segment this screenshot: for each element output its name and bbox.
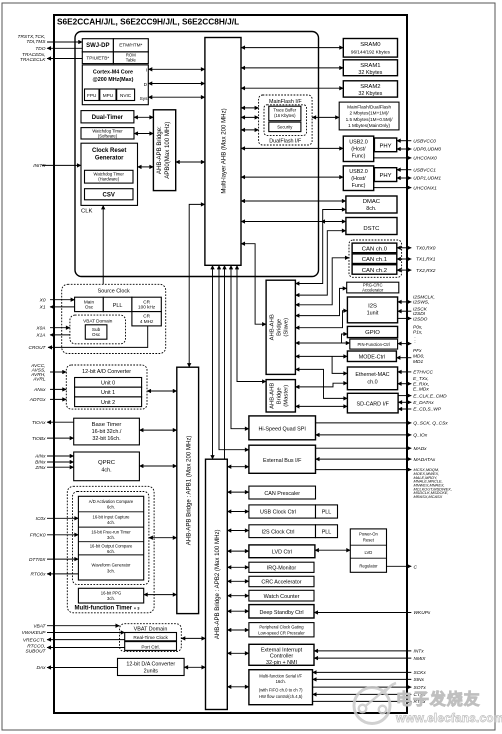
block SD-CARD I/F (347, 393, 398, 413)
block SRAM1 (343, 60, 397, 76)
svg-text:12-bit D/A Converter: 12-bit D/A Converter (126, 662, 175, 668)
wire VWAKEUP into Real-Time Clock (47, 632, 125, 634)
svg-text:Sub: Sub (92, 327, 101, 332)
svg-text:Real-Time Clock: Real-Time Clock (133, 635, 168, 640)
svg-text:FRCK0: FRCK0 (30, 533, 46, 539)
svg-text:Osc: Osc (92, 332, 101, 337)
wire AHB to MainFlash I/F b (241, 116, 259, 118)
svg-text:CRC Accelerator: CRC Accelerator (261, 580, 301, 586)
svg-text:Multi-function Timer × 3: Multi-function Timer × 3 (75, 606, 141, 612)
svg-text:I2SMCLK,: I2SMCLK, (413, 294, 435, 300)
wire APB2 to Watch Counter (227, 595, 249, 597)
wire AHB to SRAM1 (241, 67, 343, 69)
svg-text:电子发烧友: 电子发烧友 (396, 690, 481, 709)
wire CROUT out of CR 4MHz (48, 326, 148, 348)
block CRC Accelerator (249, 576, 314, 586)
svg-text:ETHVCC: ETHVCC (413, 370, 433, 376)
svg-text:RTO0x: RTO0x (30, 572, 46, 578)
svg-text:SCKx: SCKx (414, 670, 427, 676)
svg-text:FPU: FPU (87, 93, 97, 98)
wire APB2 to External Bus I/F (227, 466, 249, 468)
wire AHB to MainFlash I/F c (241, 129, 259, 131)
CPU subsystem group box (75, 32, 319, 277)
svg-text:CAN ch.2: CAN ch.2 (362, 268, 387, 274)
wire Q_IOx (316, 434, 412, 436)
wire AHB to DMAC (241, 200, 346, 202)
wire Q_SCK,Q_CSx (316, 422, 412, 424)
wire Sys-bus core to AHB (148, 96, 205, 98)
bus Multi-layer AHB (205, 38, 241, 266)
svg-text:INITX: INITX (33, 163, 46, 169)
svg-text:Func): Func) (352, 183, 366, 189)
svg-text:Watch Counter: Watch Counter (264, 594, 300, 600)
svg-text:32-bit 16ch.: 32-bit 16ch. (92, 436, 120, 442)
wire APB2 to Multi-function Serial I/F (227, 686, 249, 688)
svg-text:TDO: TDO (35, 46, 45, 52)
svg-text:Clock Reset: Clock Reset (92, 148, 126, 154)
wire INITX into Clock Reset Generator (42, 164, 81, 166)
svg-text:E_RXx,: E_RXx, (413, 381, 429, 387)
svg-text:Osc: Osc (85, 305, 94, 310)
svg-text:IC0x: IC0x (36, 516, 46, 522)
block 16-bit Output Compare (78, 554, 143, 556)
wire X1 out of Main Osc (50, 306, 75, 308)
block Ethernet-MAC (347, 367, 397, 390)
svg-text:Multi-function Serial I/F: Multi-function Serial I/F (259, 673, 302, 678)
block QPRC (74, 452, 140, 481)
svg-text:MD1: MD1 (413, 359, 423, 365)
block PLL (103, 297, 132, 311)
block Watch Counter (249, 590, 314, 601)
svg-text:16-bit Output Compare: 16-bit Output Compare (90, 544, 133, 549)
svg-text:6ch.: 6ch. (107, 549, 115, 554)
block Multi-function Serial I/F (249, 670, 313, 705)
svg-text:2 Mbytes(1M+1M)/: 2 Mbytes(1M+1M)/ (349, 111, 389, 116)
wire E_CD,S_WP (398, 408, 411, 410)
wire APB2 to Deep Standby Ctrl (227, 610, 249, 612)
svg-text:PLL: PLL (113, 303, 123, 309)
svg-text:TRSTX,TCK,: TRSTX,TCK, (18, 34, 46, 40)
svg-text:1unit: 1unit (367, 311, 379, 317)
block A/D Activation Compare (78, 511, 143, 513)
block inner flash dotted (264, 105, 307, 136)
svg-text:SOTx: SOTx (414, 685, 427, 691)
block DSTC (346, 218, 397, 235)
svg-text:32-pin + NMI: 32-pin + NMI (266, 660, 297, 666)
wire AHB to SRAM0 (241, 47, 343, 49)
svg-text:USB Clock Ctrl: USB Clock Ctrl (260, 510, 296, 516)
wire RTSx (313, 700, 412, 702)
block I2S unit (347, 297, 397, 323)
svg-text:C: C (414, 564, 418, 570)
wire QPRC to APB1 (139, 465, 176, 467)
svg-text:VBAT Domain: VBAT Domain (134, 627, 168, 633)
block USB Clock Ctrl (249, 505, 316, 518)
bus AHB-APB Bridge APB2 (206, 459, 228, 709)
wire AHB to APB1 feed (189, 204, 205, 367)
svg-text:VBAT: VBAT (33, 623, 46, 629)
svg-text:AHB-APB Bridge:: AHB-APB Bridge: (156, 126, 163, 174)
block LVD Ctrl (249, 545, 315, 558)
bus AHB-AHB Bridge Master (266, 380, 295, 412)
svg-text:MADATAx: MADATAx (414, 457, 436, 463)
svg-text:GPIO: GPIO (365, 330, 380, 336)
svg-text:AHB-APB Bridge : APB2 (Max 100: AHB-APB Bridge : APB2 (Max 100 MHz) (214, 529, 221, 639)
svg-text:ETM/HTM*: ETM/HTM* (119, 43, 142, 48)
svg-text:Main: Main (84, 299, 95, 304)
svg-text:S6E2CCAH/J/L, S6E2CC9H/J/L, S6: S6E2CCAH/J/L, S6E2CC9H/J/L, S6E2CC8H/J/L (57, 17, 239, 27)
block PHY1 (374, 168, 396, 182)
wire APB2 to LVD Ctrl (227, 550, 249, 552)
wire MCSX block (316, 469, 412, 471)
wire PRG-CRC to Slave bridge (295, 288, 346, 315)
wire DAx out of DAC (47, 667, 118, 669)
wire AINx into QPRC (47, 455, 74, 457)
wire Ethernet pins (398, 383, 412, 385)
svg-text:TX1,RX1: TX1,RX1 (416, 257, 436, 263)
wire SD-CARD to Master bridge (295, 405, 347, 407)
svg-text:Accelerator: Accelerator (362, 287, 384, 292)
svg-text:16-bit PPG: 16-bit PPG (101, 590, 121, 595)
wire I2S clock/ws (398, 301, 412, 303)
svg-text:Ethernet-MAC: Ethernet-MAC (355, 372, 389, 378)
block MFT stack (78, 496, 143, 580)
svg-text:Low-speed CR Prescaler: Low-speed CR Prescaler (258, 630, 305, 635)
svg-text:E_DATAx: E_DATAx (413, 400, 434, 406)
block Clock Reset Generator (81, 143, 138, 205)
svg-text:X0: X0 (39, 297, 46, 303)
wire LVD Ctrl to Power-On Reset (315, 549, 350, 551)
wire WKUPx into Deep Standby (314, 612, 411, 614)
wire AHB to Hi-Speed Quad SPI bus (231, 265, 249, 428)
svg-text:Table: Table (126, 58, 137, 63)
wire I2SDI (398, 310, 412, 312)
svg-text:(Hardware): (Hardware) (98, 176, 120, 181)
svg-text:P0x,: P0x, (413, 325, 423, 331)
block SRAM0 (343, 39, 397, 58)
wire Slave bridge to PIN-Function-Ctrl (295, 342, 349, 344)
block IRQ-Monitor (249, 562, 314, 572)
wire RTO0x out of Waveform Generator (47, 573, 78, 575)
svg-text:100 kHz: 100 kHz (138, 305, 156, 310)
wire AHB to SRAM2 (241, 87, 343, 89)
block USB2.0 0 (343, 136, 373, 161)
block Dual-Timer (81, 111, 134, 123)
block CAN ch.0 (352, 243, 397, 253)
wire TIOBx into Base Timer (47, 437, 74, 439)
wire MD0,MD1 into MODE-Ctrl (396, 357, 411, 359)
wire Ethernet-MAC to Master bridge (295, 383, 347, 387)
wire AHB to USB1 (241, 176, 343, 178)
wire E_DATAx (398, 401, 411, 403)
wire IC0x into Input Capture (47, 517, 78, 519)
wire VBAT into VBAT Domain (47, 625, 120, 627)
svg-text:I2SDO: I2SDO (413, 316, 428, 322)
svg-text:NVIC: NVIC (120, 93, 132, 98)
wire TRSTX,TCK,TDI,TMS into SWJ-DP (47, 41, 82, 43)
svg-text:PIN-Function-Ctrl: PIN-Function-Ctrl (358, 342, 390, 347)
block Multi-function Timer inner group (73, 492, 149, 585)
svg-text:Unit 2: Unit 2 (101, 400, 115, 406)
wire FRCK0 into Free-run Timer (47, 534, 78, 536)
block GPIO (347, 326, 397, 337)
svg-text:PLL: PLL (322, 510, 332, 516)
svg-text:I2SDI: I2SDI (413, 311, 426, 317)
wire UHCONX0 (374, 157, 412, 159)
svg-text:1.5 Mbytes(1M+0.5M)/: 1.5 Mbytes(1M+0.5M)/ (346, 117, 394, 122)
wire Slave bridge to MODE-Ctrl (295, 355, 347, 357)
wire DSTC to Slave bridge (295, 231, 346, 295)
wire ZINx into QPRC (47, 466, 74, 468)
svg-text:CAN ch.0: CAN ch.0 (362, 246, 388, 252)
block SRAM2 (343, 81, 397, 97)
wire AHB bus stub (224, 265, 226, 459)
wire Base Timer to APB1 (139, 429, 176, 431)
wire SOTx (313, 686, 412, 688)
svg-text:Func): Func) (352, 154, 366, 160)
bus AHB-AHB Bridge Slave (266, 280, 295, 374)
block Multi-function Timer outer group (67, 486, 154, 613)
svg-text:PHY: PHY (379, 173, 391, 179)
svg-text:MODE-Ctrl: MODE-Ctrl (359, 355, 385, 361)
block External Interrupt Controller (249, 644, 314, 665)
svg-text:1 Mbytes(MainOnly): 1 Mbytes(MainOnly) (348, 123, 390, 128)
svg-text:Regulator: Regulator (359, 563, 378, 568)
wire RTCCO,SUBOUT out (47, 647, 125, 649)
svg-text:MRASX,MCASX: MRASX,MCASX (414, 494, 443, 499)
svg-text:SD-CARD I/F: SD-CARD I/F (357, 402, 390, 408)
wire INTx (314, 650, 411, 652)
main chip boundary box (54, 15, 407, 713)
block External Bus I/F (249, 445, 316, 473)
svg-text:Multi-layer AHB (Max 200 MHz): Multi-layer AHB (Max 200 MHz) (221, 108, 228, 193)
wire X0 into Main Osc (50, 299, 75, 301)
wire AHB to MainFlash I/F a (241, 107, 259, 109)
block 16-bit PPG (78, 588, 143, 603)
block ADC Unit 0 (75, 378, 142, 388)
svg-text:CAN ch.1: CAN ch.1 (362, 257, 387, 263)
svg-text:Dual-Timer: Dual-Timer (92, 115, 124, 121)
wire MainFlash I/F to Flash memory (312, 116, 339, 118)
svg-text:12-bit A/D Converter: 12-bit A/D Converter (82, 369, 131, 375)
wire TX2,RX2 (397, 269, 412, 271)
block ADC Unit 1 (75, 387, 142, 397)
block VBAT Domain (RTC) group (120, 624, 182, 652)
wire TX0,RX0 (397, 247, 412, 249)
wire UHCONX1 (374, 187, 412, 189)
wire APB2 to I2S Clock Ctrl (227, 530, 249, 532)
block DMAC (346, 196, 397, 213)
svg-text:Power-On: Power-On (359, 532, 379, 537)
bus AHB-APB Bridge APB1 (177, 367, 199, 613)
wire AHB to APB2 bus (212, 265, 214, 459)
svg-text:VREGCTL: VREGCTL (23, 637, 46, 643)
block Watchdog Timer (Software) (81, 128, 134, 139)
svg-text:(Master): (Master) (284, 385, 290, 407)
svg-text:SRAM0: SRAM0 (360, 42, 381, 48)
block I2S PLL (316, 525, 338, 538)
wire DTTI0X into Waveform Generator (47, 558, 78, 560)
svg-text:I: I (146, 68, 147, 73)
svg-text:Base Timer: Base Timer (92, 422, 122, 428)
svg-text:ZINx: ZINx (34, 465, 46, 471)
svg-text:MainFlash/DualFlash: MainFlash/DualFlash (347, 105, 391, 110)
svg-text:MD0,: MD0, (413, 354, 424, 360)
block Base Timer (74, 418, 140, 445)
wire Source Clock to CSV/CRG (102, 205, 104, 284)
svg-text:Reset: Reset (363, 538, 375, 543)
svg-text:TDI,TMS: TDI,TMS (26, 39, 46, 45)
svg-text:WKUPx: WKUPx (414, 610, 431, 616)
block FPU (85, 89, 100, 101)
svg-text:TRACEDx,: TRACEDx, (22, 52, 45, 58)
svg-text:VBAT Domain: VBAT Domain (83, 318, 113, 323)
svg-text:CROUT: CROUT (28, 345, 46, 351)
svg-text:CAN Prescaler: CAN Prescaler (264, 491, 300, 497)
wire GPIO port pins (398, 343, 412, 345)
wire X0A into Sub Osc (50, 327, 70, 329)
svg-text:Q_IOx: Q_IOx (413, 433, 427, 439)
wire APB2 to CRC Accelerator (227, 580, 249, 582)
wire ETHVCC (398, 371, 412, 373)
svg-text:8ch.: 8ch. (366, 206, 376, 212)
block 12-bit D/A Converter (118, 658, 185, 675)
svg-text:TIOAx: TIOAx (32, 420, 46, 426)
block I2S Clock Ctrl (249, 525, 316, 538)
svg-text:DSTC: DSTC (363, 226, 380, 232)
svg-text:(with FIFO ch.0 to ch 7): (with FIFO ch.0 to ch 7) (259, 688, 303, 693)
svg-text:PFx: PFx (413, 348, 422, 354)
svg-text:HW flow control(ch.4,5): HW flow control(ch.4,5) (259, 694, 303, 699)
svg-text:DTTI0X: DTTI0X (29, 557, 46, 563)
svg-text:CLK: CLK (81, 209, 93, 215)
svg-text:AHB-AHB: AHB-AHB (270, 383, 276, 409)
svg-text:E_CLK,E_CMD: E_CLK,E_CMD (413, 393, 447, 399)
block MODE-Ctrl (347, 351, 396, 362)
svg-text:.: . (415, 340, 416, 345)
svg-text:@200 MHz(Max): @200 MHz(Max) (93, 77, 134, 83)
svg-text:UHCONX0: UHCONX0 (413, 156, 437, 162)
svg-text:TX0,RX0: TX0,RX0 (416, 246, 436, 252)
block ETM/HTM (113, 39, 148, 52)
svg-text:Controller: Controller (270, 654, 294, 660)
block CAN group (349, 240, 402, 277)
svg-text:Unit 0: Unit 0 (101, 380, 115, 386)
svg-text:External Interrupt: External Interrupt (261, 647, 303, 653)
block CAN Prescaler (249, 486, 316, 499)
svg-text:ch.0: ch.0 (367, 380, 377, 386)
svg-text:(Software): (Software) (98, 133, 118, 138)
wire MADx (316, 447, 412, 449)
svg-text:Q_SCK, Q_CSx: Q_SCK, Q_CSx (413, 421, 448, 427)
svg-text:32 Kbytes: 32 Kbytes (358, 70, 382, 76)
block Watchdog Timer (Hardware) (85, 170, 134, 183)
svg-text:DAx: DAx (36, 665, 46, 671)
wire AHB to AHB-AHB Slave (241, 244, 266, 325)
svg-text:PHY: PHY (379, 144, 391, 150)
svg-text:SUBOUT: SUBOUT (26, 648, 47, 654)
svg-text:Trace Buffer: Trace Buffer (273, 108, 296, 113)
svg-text:TRACECLK: TRACECLK (20, 57, 46, 63)
svg-text:TX2,RX2: TX2,RX2 (416, 268, 436, 274)
wire TRACEDx,TRACECLK out of TPIU (47, 58, 82, 60)
wire CRG to APB0 (138, 166, 154, 168)
wire C regulator out (387, 565, 412, 567)
bus AHB-APB Bridge APB0 (153, 110, 175, 191)
wire APB2 to Peripheral Clock Gating (227, 629, 249, 631)
svg-text:Sys: Sys (140, 96, 148, 101)
svg-text:2units: 2units (144, 668, 159, 674)
svg-text:16-bit Input Capture: 16-bit Input Capture (92, 514, 130, 519)
wire Watchdog(SW) to APB0 (134, 133, 153, 135)
wire SINx (313, 678, 412, 680)
block Sub Osc (85, 325, 107, 339)
wire ADC to APB1 (147, 390, 177, 392)
svg-text:3ch.: 3ch. (107, 535, 115, 540)
wire MFT to APB1 (149, 537, 177, 539)
block ADC Unit 2 (75, 397, 142, 407)
svg-text:NMIX: NMIX (414, 656, 427, 662)
block PHY0 (374, 138, 396, 152)
svg-text:4ch.: 4ch. (101, 468, 111, 474)
svg-text:TIOBx: TIOBx (32, 436, 46, 442)
svg-text:www.elecfans.com: www.elecfans.com (395, 711, 502, 725)
svg-text:ADTGx: ADTGx (29, 397, 46, 403)
svg-text:USBVCC1: USBVCC1 (413, 167, 436, 173)
wire BINx into QPRC (47, 461, 74, 463)
svg-text:External Bus I/F: External Bus I/F (263, 458, 302, 464)
block CAN ch.2 (352, 265, 397, 275)
svg-text:I2S: I2S (368, 304, 377, 310)
wire TIOAx out of Base Timer (47, 421, 74, 423)
watermark logo (354, 683, 396, 724)
svg-text:SRAM2: SRAM2 (360, 84, 380, 90)
svg-text:16-bit 32ch./: 16-bit 32ch./ (92, 429, 122, 435)
svg-text:3ch.: 3ch. (107, 569, 115, 574)
svg-text:Unit 1: Unit 1 (101, 390, 115, 396)
wire Slave bridge to SD-CARD (295, 369, 347, 398)
svg-text:Cortex-M4 Core: Cortex-M4 Core (93, 70, 133, 76)
wire APB0 to AHB (176, 161, 205, 163)
wire E_CLK,E_CMD (398, 395, 411, 397)
block CSV (85, 189, 134, 200)
block USB PLL (316, 505, 338, 518)
svg-text:X1: X1 (39, 305, 46, 311)
block SWJ-DP (82, 39, 113, 52)
block Port Ctrl (125, 642, 177, 651)
wire I-bus core to AHB (148, 68, 205, 70)
block Power-On Reset (350, 529, 386, 572)
wire I2S to Slave bridge (295, 311, 347, 328)
wire APB2 to CAN Prescaler (227, 491, 249, 493)
svg-text:32 Kbytes: 32 Kbytes (358, 91, 382, 97)
wire APB2 to IRQ-Monitor (227, 566, 249, 568)
wire AHB to AHB-AHB Master bus (237, 265, 266, 381)
svg-text:AHB-AHB: AHB-AHB (270, 314, 276, 340)
wire UDP1,UDM1 (397, 177, 412, 179)
svg-text:APB0(Max 100 MHz): APB0(Max 100 MHz) (164, 122, 171, 179)
wire AVCC,AVSS,AVRH,AVRL into ADC (50, 371, 66, 373)
block CR 4MHz (132, 312, 161, 326)
wire NMIX (314, 657, 411, 659)
svg-text:UDP0,UDM0: UDP0,UDM0 (413, 147, 441, 153)
wire TDO out of SWJ-DP (47, 47, 82, 49)
svg-text:VWAKEUP: VWAKEUP (22, 630, 47, 636)
svg-text:Hi-Speed Quad SPI: Hi-Speed Quad SPI (259, 426, 306, 432)
junction arrow on DSTC wire (321, 221, 322, 223)
svg-text:CR: CR (143, 299, 150, 304)
svg-text:SRAM1: SRAM1 (360, 63, 380, 69)
